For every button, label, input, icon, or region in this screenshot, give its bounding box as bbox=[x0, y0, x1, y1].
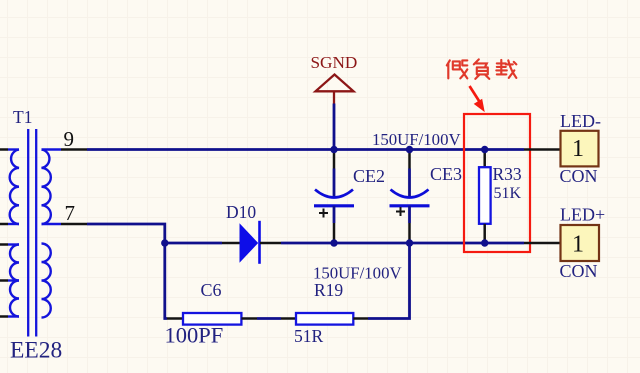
node bottom rail CE2 bbox=[330, 239, 337, 246]
SGND power symbol bbox=[316, 75, 354, 104]
svg-text:CON: CON bbox=[560, 166, 598, 186]
capacitor CE2 bbox=[314, 150, 354, 244]
transformer T1 secondary winding lower-right bbox=[42, 244, 51, 318]
svg-text:CE3: CE3 bbox=[430, 164, 462, 184]
svg-text:R19: R19 bbox=[314, 280, 343, 300]
svg-text:9: 9 bbox=[64, 127, 75, 151]
wire bottom rail bbox=[165, 242, 222, 245]
red annotation text 假负载 bbox=[447, 59, 517, 79]
svg-text:C6: C6 bbox=[201, 280, 222, 300]
svg-text:150UF/100V: 150UF/100V bbox=[372, 130, 461, 149]
node top rail CE3 bbox=[406, 146, 413, 153]
svg-text:EE28: EE28 bbox=[10, 338, 62, 364]
svg-text:LED+: LED+ bbox=[560, 205, 605, 225]
wire SGND stem bbox=[333, 104, 336, 150]
transformer T1 core bbox=[28, 129, 36, 337]
svg-text:R33: R33 bbox=[493, 164, 522, 184]
resistor R19 bbox=[281, 313, 368, 325]
diode D10 bbox=[222, 221, 281, 264]
svg-text:T1: T1 bbox=[13, 107, 32, 127]
node top rail CE2 bbox=[330, 146, 337, 153]
svg-text:1: 1 bbox=[572, 232, 584, 258]
node bottom rail R33 bbox=[481, 239, 488, 246]
svg-text:CON: CON bbox=[560, 261, 598, 281]
wire pin7 to lower branch corner bbox=[87, 224, 167, 319]
resistor R33 bbox=[479, 150, 491, 244]
connector P? (LED-) part box bbox=[524, 131, 599, 167]
connector P? (LED+) part box bbox=[524, 225, 599, 261]
wire top rail bbox=[87, 148, 524, 151]
svg-text:7: 7 bbox=[65, 201, 76, 225]
svg-text:D10: D10 bbox=[226, 202, 256, 222]
red annotation arrow bbox=[470, 86, 485, 111]
red annotation box (dummy load) bbox=[464, 114, 530, 252]
pin 7 black pin segment bbox=[61, 223, 87, 226]
svg-text:51R: 51R bbox=[294, 326, 324, 346]
node top rail R33 bbox=[481, 146, 488, 153]
svg-text:1: 1 bbox=[572, 136, 584, 162]
capacitor C6 bbox=[167, 313, 257, 325]
wire between C6 and R19 bbox=[257, 317, 281, 320]
svg-text:CE2: CE2 bbox=[353, 166, 385, 186]
transformer T1 primary winding lower-left bbox=[0, 245, 19, 317]
svg-text:LED-: LED- bbox=[560, 111, 601, 131]
svg-text:SGND: SGND bbox=[311, 53, 358, 72]
svg-text:100PF: 100PF bbox=[165, 323, 224, 348]
wire right riser from R19 to bottom rail bbox=[368, 243, 410, 319]
node bottom rail left bbox=[161, 239, 168, 246]
svg-text:51K: 51K bbox=[494, 185, 522, 202]
transformer T1 primary winding upper-left bbox=[0, 150, 19, 225]
capacitor CE3 bbox=[390, 150, 430, 244]
node bottom rail CE3 bbox=[406, 239, 413, 246]
pin 9 black pin segment bbox=[61, 148, 87, 151]
transformer T1 secondary winding upper-right bbox=[42, 150, 62, 225]
junction dots bbox=[161, 146, 488, 247]
